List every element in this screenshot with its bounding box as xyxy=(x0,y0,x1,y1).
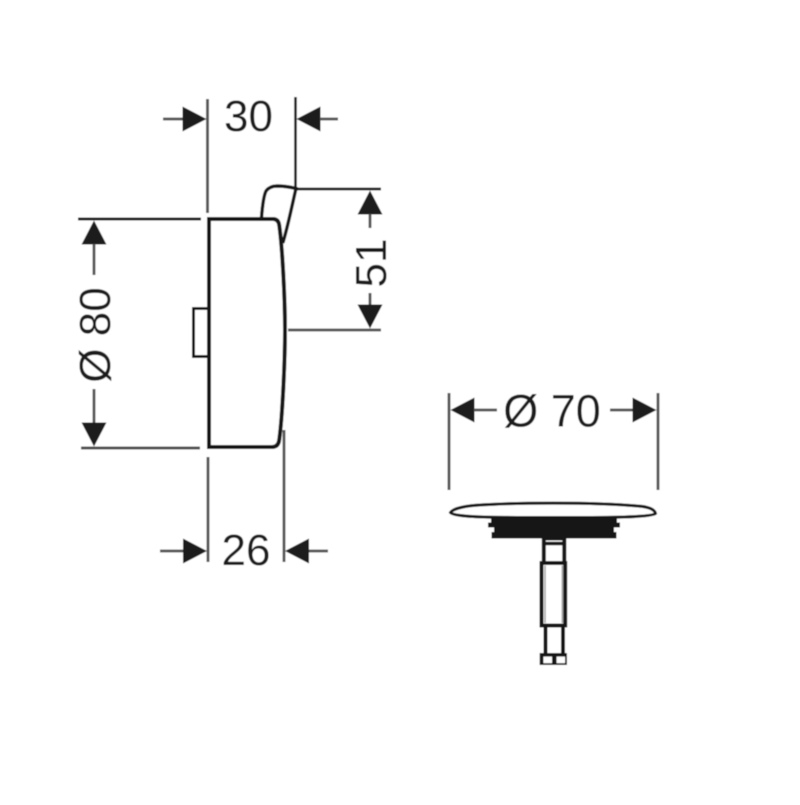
plug shaft inner line left xyxy=(544,566,546,624)
escutcheon body xyxy=(209,219,285,447)
dim 30 left arrow tail xyxy=(163,118,184,121)
dim 26 left arrowhead xyxy=(183,539,207,564)
dim 51 bottom extension line xyxy=(288,329,381,332)
plug seal stack xyxy=(488,518,620,539)
dim 80 top tail xyxy=(93,244,96,275)
svg-text:Ø 70: Ø 70 xyxy=(503,386,601,437)
svg-text:30: 30 xyxy=(224,92,273,141)
dim 80 bottom extension line xyxy=(81,447,200,450)
svg-text:51: 51 xyxy=(347,239,396,288)
dim 70 left arrow tail xyxy=(474,409,497,412)
dim 51 top arrowhead xyxy=(358,191,383,215)
dim 51 bottom tail xyxy=(369,293,372,306)
escutcheon button xyxy=(194,309,210,357)
plug neck xyxy=(544,539,565,564)
plug foot right facet xyxy=(557,657,565,664)
svg-text:Ø 80: Ø 80 xyxy=(71,287,120,382)
plug shaft xyxy=(542,563,566,626)
dim 80 bottom arrowhead xyxy=(82,423,107,447)
escutcheon spout fill xyxy=(262,186,297,243)
dim 80 top arrowhead xyxy=(82,221,107,245)
plug neck crossbar xyxy=(542,542,566,545)
dim 80 top extension line xyxy=(78,218,201,221)
dim 26 right arrowhead xyxy=(285,539,309,564)
dim 30 right arrowhead xyxy=(297,107,321,132)
dim 30 right extension line xyxy=(294,97,297,188)
plug cap xyxy=(451,503,656,517)
dim 70 right extension line xyxy=(657,393,660,490)
dim 26 right arrow tail xyxy=(309,550,328,553)
plug shaft inner line right xyxy=(561,566,563,624)
escutcheon spout outline xyxy=(262,186,297,243)
dim 51 top extension line xyxy=(297,188,381,191)
plug foot nut xyxy=(540,653,567,665)
dim 70 left arrowhead xyxy=(451,398,475,423)
plug lower stem xyxy=(546,626,564,656)
dim 30 left arrowhead xyxy=(183,107,207,132)
dim 30 right arrow tail xyxy=(320,118,338,121)
dim 70 right arrowhead xyxy=(633,398,657,423)
plug foot left facet xyxy=(543,657,552,664)
dim 26 left extension line xyxy=(207,457,210,562)
dim 51 bottom arrowhead xyxy=(358,305,383,329)
dim 70 right arrow tail xyxy=(610,409,634,412)
dim 80 bottom tail xyxy=(93,389,96,423)
dim 26 left arrow tail xyxy=(160,550,183,553)
svg-text:26: 26 xyxy=(222,526,271,575)
dim 70 left extension line xyxy=(448,393,451,490)
dim 51 top tail xyxy=(369,214,372,228)
dim 26 right extension line xyxy=(283,430,286,562)
dim 30 left extension line xyxy=(206,99,209,213)
